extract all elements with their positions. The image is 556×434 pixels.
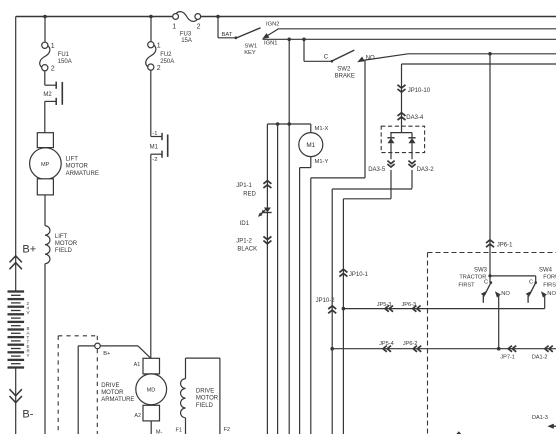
- svg-text:DRIVE: DRIVE: [101, 383, 119, 389]
- svg-text:DA1-3: DA1-3: [532, 415, 548, 421]
- svg-text:ID1: ID1: [240, 221, 250, 227]
- svg-text:RED: RED: [243, 191, 256, 197]
- svg-text:C: C: [484, 279, 488, 285]
- svg-text:SW2: SW2: [337, 66, 351, 72]
- svg-text:JP1-1: JP1-1: [236, 183, 252, 189]
- svg-text:DA3-5: DA3-5: [368, 167, 386, 173]
- svg-text:IGN2: IGN2: [266, 21, 280, 27]
- svg-text:Y: Y: [27, 353, 30, 358]
- svg-text:250A: 250A: [160, 59, 174, 65]
- svg-text:FORWARD: FORWARD: [543, 275, 556, 281]
- svg-text:1: 1: [51, 43, 55, 50]
- svg-text:A1: A1: [134, 362, 141, 368]
- svg-text:JP6-1: JP6-1: [497, 242, 513, 248]
- svg-text:DA3-4: DA3-4: [406, 115, 424, 121]
- svg-text:MP: MP: [41, 162, 50, 168]
- svg-text:C: C: [529, 279, 533, 285]
- svg-text:F1: F1: [176, 428, 183, 434]
- svg-text:JP5-4: JP5-4: [379, 341, 394, 347]
- svg-text:F2: F2: [224, 427, 231, 433]
- svg-text:JP7-1: JP7-1: [500, 354, 515, 360]
- svg-text:ARMATURE: ARMATURE: [101, 397, 134, 403]
- svg-text:BRAKE: BRAKE: [335, 73, 355, 79]
- svg-text:BLACK: BLACK: [237, 247, 257, 253]
- svg-text:JP10-2: JP10-2: [316, 298, 336, 304]
- svg-text:M1: M1: [150, 144, 159, 150]
- svg-text:A2: A2: [134, 413, 141, 419]
- svg-text:15A: 15A: [181, 38, 192, 44]
- svg-text:BAT: BAT: [222, 32, 233, 38]
- svg-text:DA3-2: DA3-2: [417, 167, 435, 173]
- svg-text:M2: M2: [43, 92, 52, 98]
- svg-text:2: 2: [157, 65, 161, 72]
- svg-text:B+: B+: [22, 243, 36, 255]
- svg-text:1: 1: [172, 23, 176, 30]
- svg-text:C: C: [324, 54, 329, 60]
- svg-text:MOTOR: MOTOR: [196, 396, 219, 402]
- svg-text:M1-X: M1-X: [315, 126, 329, 132]
- svg-text:MD: MD: [147, 388, 156, 394]
- svg-text:FIELD: FIELD: [55, 248, 73, 254]
- svg-text:-2: -2: [152, 157, 157, 163]
- svg-text:-1: -1: [152, 131, 157, 137]
- svg-text:LIFT: LIFT: [55, 234, 68, 240]
- svg-text:KEY: KEY: [244, 50, 256, 56]
- svg-text:2: 2: [197, 23, 201, 30]
- svg-text:MOTOR: MOTOR: [66, 164, 89, 170]
- svg-text:V: V: [27, 310, 30, 315]
- svg-text:DRIVE: DRIVE: [196, 389, 214, 395]
- svg-text:LIFT: LIFT: [66, 156, 79, 162]
- svg-text:JP6-2: JP6-2: [403, 341, 418, 347]
- svg-text:FIRST: FIRST: [458, 283, 475, 289]
- svg-text:FIRST: FIRST: [543, 283, 556, 289]
- svg-text:NO: NO: [366, 56, 375, 62]
- svg-text:FU3: FU3: [180, 31, 192, 37]
- svg-text:MOTOR: MOTOR: [55, 241, 78, 247]
- svg-text:FIELD: FIELD: [196, 403, 214, 409]
- svg-text:M-: M-: [156, 430, 163, 434]
- svg-text:IGN1: IGN1: [264, 40, 278, 46]
- svg-text:NO: NO: [547, 291, 556, 297]
- svg-text:SW3: SW3: [474, 267, 488, 273]
- svg-text:JP6-3: JP6-3: [402, 302, 417, 308]
- svg-text:TRACTOR: TRACTOR: [459, 275, 486, 281]
- svg-text:FU1: FU1: [58, 52, 70, 58]
- svg-text:DA1-2: DA1-2: [532, 354, 548, 360]
- svg-text:ARMATURE: ARMATURE: [66, 171, 99, 177]
- svg-text:M1-Y: M1-Y: [315, 159, 329, 165]
- svg-text:B-: B-: [22, 409, 33, 421]
- svg-text:M1: M1: [306, 142, 315, 149]
- svg-text:JP1-2: JP1-2: [236, 238, 252, 244]
- svg-text:B+: B+: [103, 351, 111, 357]
- svg-text:JP10-10: JP10-10: [408, 88, 431, 94]
- svg-text:150A: 150A: [58, 59, 72, 65]
- svg-text:SW4: SW4: [539, 267, 553, 273]
- svg-text:2: 2: [51, 66, 55, 73]
- svg-text:FU2: FU2: [160, 52, 172, 58]
- svg-text:1: 1: [157, 43, 161, 50]
- svg-text:JP10-1: JP10-1: [349, 272, 369, 278]
- svg-text:SW1: SW1: [245, 44, 258, 50]
- svg-text:JP5-3: JP5-3: [377, 302, 392, 308]
- svg-text:NO: NO: [501, 291, 510, 297]
- svg-text:MOTOR: MOTOR: [101, 390, 124, 396]
